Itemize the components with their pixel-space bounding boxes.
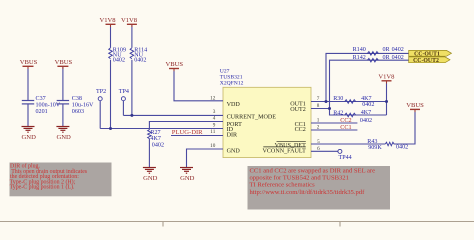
wire CC2 pin 2 net	[311, 129, 357, 131]
svg-text:0402: 0402	[392, 47, 404, 53]
wire VCONN_FAULT pin 6 to TP44	[311, 150, 338, 152]
overline VBUS_DET	[277, 140, 306, 142]
U27 pin numbers	[210, 95, 216, 149]
wire V1V8 no2 stem	[131, 25, 133, 48]
wire C37 to GND	[27, 104, 29, 126]
resistor R43	[385, 142, 394, 146]
test point TP2	[98, 97, 102, 101]
svg-text:0402: 0402	[396, 145, 408, 151]
resistor R109	[109, 48, 113, 59]
wire TP2 drop	[99, 101, 101, 129]
capacitor C37	[22, 101, 34, 104]
capacitor C38	[57, 101, 69, 104]
power VBUS1	[20, 59, 38, 66]
note box 1	[10, 163, 112, 197]
svg-text:0402: 0402	[392, 55, 404, 61]
svg-text:opposite for TUSB542 and TUSB3: opposite for TUSB542 and TUSB321	[250, 175, 349, 182]
junction node R109/ID	[109, 127, 112, 130]
svg-text:V1V8: V1V8	[99, 17, 116, 24]
svg-text:CURRENT_MODE: CURRENT_MODE	[227, 115, 277, 121]
U27 refdes labels	[220, 68, 244, 86]
svg-text:V1V8: V1V8	[378, 74, 395, 81]
svg-text:CC1 and CC2 are swapped as DIR: CC1 and CC2 are swapped as DIR and SEL a…	[250, 167, 376, 174]
svg-text:TI Reference schematics: TI Reference schematics	[250, 182, 316, 189]
ground GND1	[22, 127, 35, 133]
U27 pin names right	[262, 102, 306, 155]
wire riser to R140 row	[326, 53, 409, 101]
wire OUT1 pin 7 row	[311, 101, 387, 103]
svg-text:VBUS: VBUS	[20, 59, 38, 66]
wire ID net	[100, 128, 223, 130]
resistor R42	[345, 113, 356, 117]
power V1V8 no3	[378, 74, 395, 81]
svg-text:X2QFN12: X2QFN12	[220, 81, 244, 87]
overline VCONN_FAULT	[263, 146, 306, 148]
svg-text:GND: GND	[56, 134, 71, 141]
svg-text:CC-OUT2: CC-OUT2	[413, 58, 439, 64]
svg-text:9: 9	[213, 122, 216, 128]
wire pin8 down to R42 row	[330, 109, 387, 116]
svg-text:DIR: DIR	[227, 133, 238, 139]
test point TP44	[338, 149, 342, 153]
svg-text:0402: 0402	[152, 143, 164, 149]
svg-text:R42: R42	[333, 110, 343, 116]
power V1V8 no2	[121, 17, 138, 24]
wire DIR net PLUG-DIR	[171, 135, 223, 137]
svg-text:C37: C37	[36, 96, 46, 102]
power V1V8 no1	[99, 17, 116, 24]
svg-text:CC2: CC2	[340, 117, 351, 124]
svg-text:R27: R27	[150, 130, 160, 136]
svg-text:U27: U27	[220, 68, 230, 74]
svg-text:http://www.ti.com/lit/df/tidrk: http://www.ti.com/lit/df/tidrk35/tidrk35…	[250, 189, 366, 196]
wire R109 to ID net	[110, 60, 112, 129]
svg-text:VBUS: VBUS	[166, 61, 184, 68]
wire V1V8 no1 stem	[110, 25, 112, 48]
wire R27 to GND	[148, 139, 150, 168]
wire V1V8 no3 stem	[386, 81, 388, 115]
svg-text:R30: R30	[333, 96, 343, 102]
wire OUT2 pin 8	[311, 108, 330, 110]
wire VBUS_DET pin 5 to R43	[311, 143, 385, 145]
wire R43 to VBUS4	[394, 110, 415, 145]
resistor R27	[148, 130, 152, 139]
svg-text:TP44: TP44	[339, 155, 352, 161]
svg-text:GND: GND	[180, 175, 195, 182]
svg-text:0R: 0R	[383, 47, 391, 53]
svg-text:OUT2: OUT2	[290, 107, 306, 113]
svg-text:VBUS: VBUS	[55, 59, 73, 66]
svg-text:100n-10V: 100n-10V	[36, 102, 61, 108]
svg-text:R140: R140	[353, 47, 366, 53]
svg-text:GND: GND	[227, 148, 241, 154]
ground GND4 under pin 10	[180, 168, 193, 174]
wire CC1 pin 1 net	[311, 122, 357, 124]
sheet border line	[0, 222, 474, 227]
wire VBUS2 stem	[62, 67, 64, 101]
ground GND2	[56, 127, 69, 133]
svg-text:TP2: TP2	[96, 89, 106, 95]
junction node R30/V1V8	[385, 100, 388, 103]
svg-text:0R: 0R	[383, 55, 391, 61]
IC U27 TUSB321 X2QFN12 body	[223, 87, 311, 157]
svg-text:11: 11	[210, 129, 215, 135]
wire riser to R142 row	[330, 60, 409, 108]
svg-text:VDD: VDD	[227, 102, 241, 108]
svg-text:GND: GND	[143, 175, 158, 182]
svg-text:0603: 0603	[72, 109, 84, 115]
svg-text:VCONN_FAULT: VCONN_FAULT	[262, 148, 306, 154]
svg-text:4K7: 4K7	[150, 136, 161, 142]
svg-text:CC2: CC2	[295, 127, 306, 133]
svg-text:TUSB321: TUSB321	[220, 75, 243, 81]
resistor R30	[345, 100, 356, 104]
svg-text:CC1: CC1	[340, 124, 351, 131]
svg-text:PLUG-DIR: PLUG-DIR	[172, 129, 203, 136]
svg-text:10: 10	[210, 143, 216, 149]
power pin stems	[28, 24, 415, 112]
power VBUS2	[55, 59, 73, 66]
wire TP4 drop	[122, 101, 124, 116]
resistor R142	[367, 58, 378, 62]
power VBUS4	[406, 102, 424, 109]
svg-text:C38: C38	[72, 96, 82, 102]
svg-text:TP4: TP4	[119, 89, 129, 95]
svg-text:GND: GND	[22, 134, 37, 141]
junction node pin7/riser	[325, 100, 328, 103]
svg-text:V1V8: V1V8	[121, 17, 138, 24]
svg-text:4K7: 4K7	[361, 110, 372, 116]
wire R114 to CURRENT_MODE net	[131, 60, 133, 116]
junction node pin8/riser	[328, 107, 331, 110]
svg-text:0402: 0402	[362, 102, 374, 108]
junction node R114/CURRENT_MODE	[130, 114, 133, 117]
svg-text:CC-OUT1: CC-OUT1	[414, 51, 440, 57]
svg-text:0402: 0402	[134, 57, 146, 63]
wire PORT pin 4 to R27	[149, 122, 223, 130]
svg-text:4: 4	[213, 116, 216, 122]
svg-text:10u-16V: 10u-16V	[72, 102, 94, 108]
off-page connector CC-OUT2	[409, 57, 450, 64]
power VBUS3	[166, 61, 184, 69]
svg-text:R142: R142	[353, 55, 366, 61]
svg-text:0402: 0402	[113, 57, 125, 63]
note box 2	[248, 166, 391, 210]
off-page connector CC-OUT1	[409, 50, 452, 57]
test point TP4	[121, 97, 125, 101]
ground GND3 under R27	[143, 168, 156, 174]
wire CURRENT_MODE net	[123, 114, 223, 116]
resistor R114	[130, 48, 134, 59]
resistor R140	[367, 52, 378, 56]
svg-text:0402: 0402	[360, 118, 372, 124]
wire C38 to GND	[62, 104, 64, 126]
svg-text:0201: 0201	[36, 109, 48, 115]
wire VBUS3 to VDD pin 12	[174, 69, 223, 101]
U27 pin names left	[227, 102, 277, 155]
svg-text:VBUS: VBUS	[406, 102, 424, 109]
svg-text:909K: 909K	[368, 145, 382, 151]
wire GND pin 10	[187, 149, 224, 167]
svg-text:3: 3	[213, 109, 216, 115]
wire VBUS1 stem	[27, 67, 29, 101]
svg-text:Type-C plug position 1 (L).: Type-C plug position 1 (L).	[10, 184, 75, 191]
